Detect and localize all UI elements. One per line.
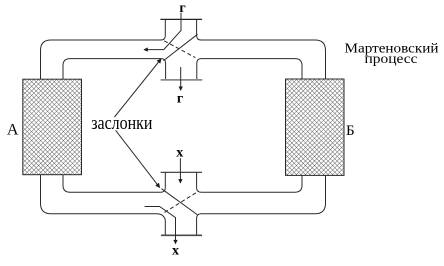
svg-text:г: г bbox=[179, 1, 185, 16]
svg-text:процесс: процесс bbox=[365, 51, 418, 66]
svg-text:А: А bbox=[7, 121, 19, 138]
svg-text:Б: Б bbox=[346, 123, 355, 139]
svg-text:х: х bbox=[172, 243, 179, 258]
svg-text:г: г bbox=[177, 92, 183, 107]
svg-text:заслонки: заслонки bbox=[91, 114, 152, 134]
svg-text:х: х bbox=[176, 145, 183, 160]
